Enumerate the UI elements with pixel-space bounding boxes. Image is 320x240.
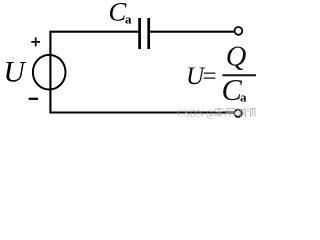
- svg-text:=: =: [203, 63, 217, 90]
- svg-text:Q: Q: [226, 42, 247, 73]
- polarity plus sign: [31, 37, 40, 46]
- wire: top-right segment (capacitor right plate to top output terminal): [150, 31, 234, 33]
- svg-text:CSDN @: CSDN @: [177, 109, 215, 120]
- wire: bottom segment (source bottom to bottom output terminal): [49, 111, 233, 113]
- capacitor Ca plate 2 (right): [147, 18, 150, 49]
- wire: top-left segment (source top to capacitor left plate): [50, 32, 138, 113]
- capacitor Ca plate 1 (left): [138, 18, 141, 49]
- svg-text:C: C: [109, 0, 127, 27]
- formula: fraction bar: [223, 74, 257, 76]
- terminal: bottom output (open circle): [234, 110, 241, 117]
- polarity minus sign: [29, 98, 38, 100]
- svg-text:a: a: [125, 11, 132, 26]
- terminal: top output (open circle): [235, 27, 243, 35]
- voltage source U1 (circle on left vertical wire): [33, 55, 66, 90]
- watermark CSDN @李依老师: [177, 108, 255, 120]
- svg-text:U: U: [4, 57, 27, 89]
- svg-text:a: a: [240, 90, 247, 105]
